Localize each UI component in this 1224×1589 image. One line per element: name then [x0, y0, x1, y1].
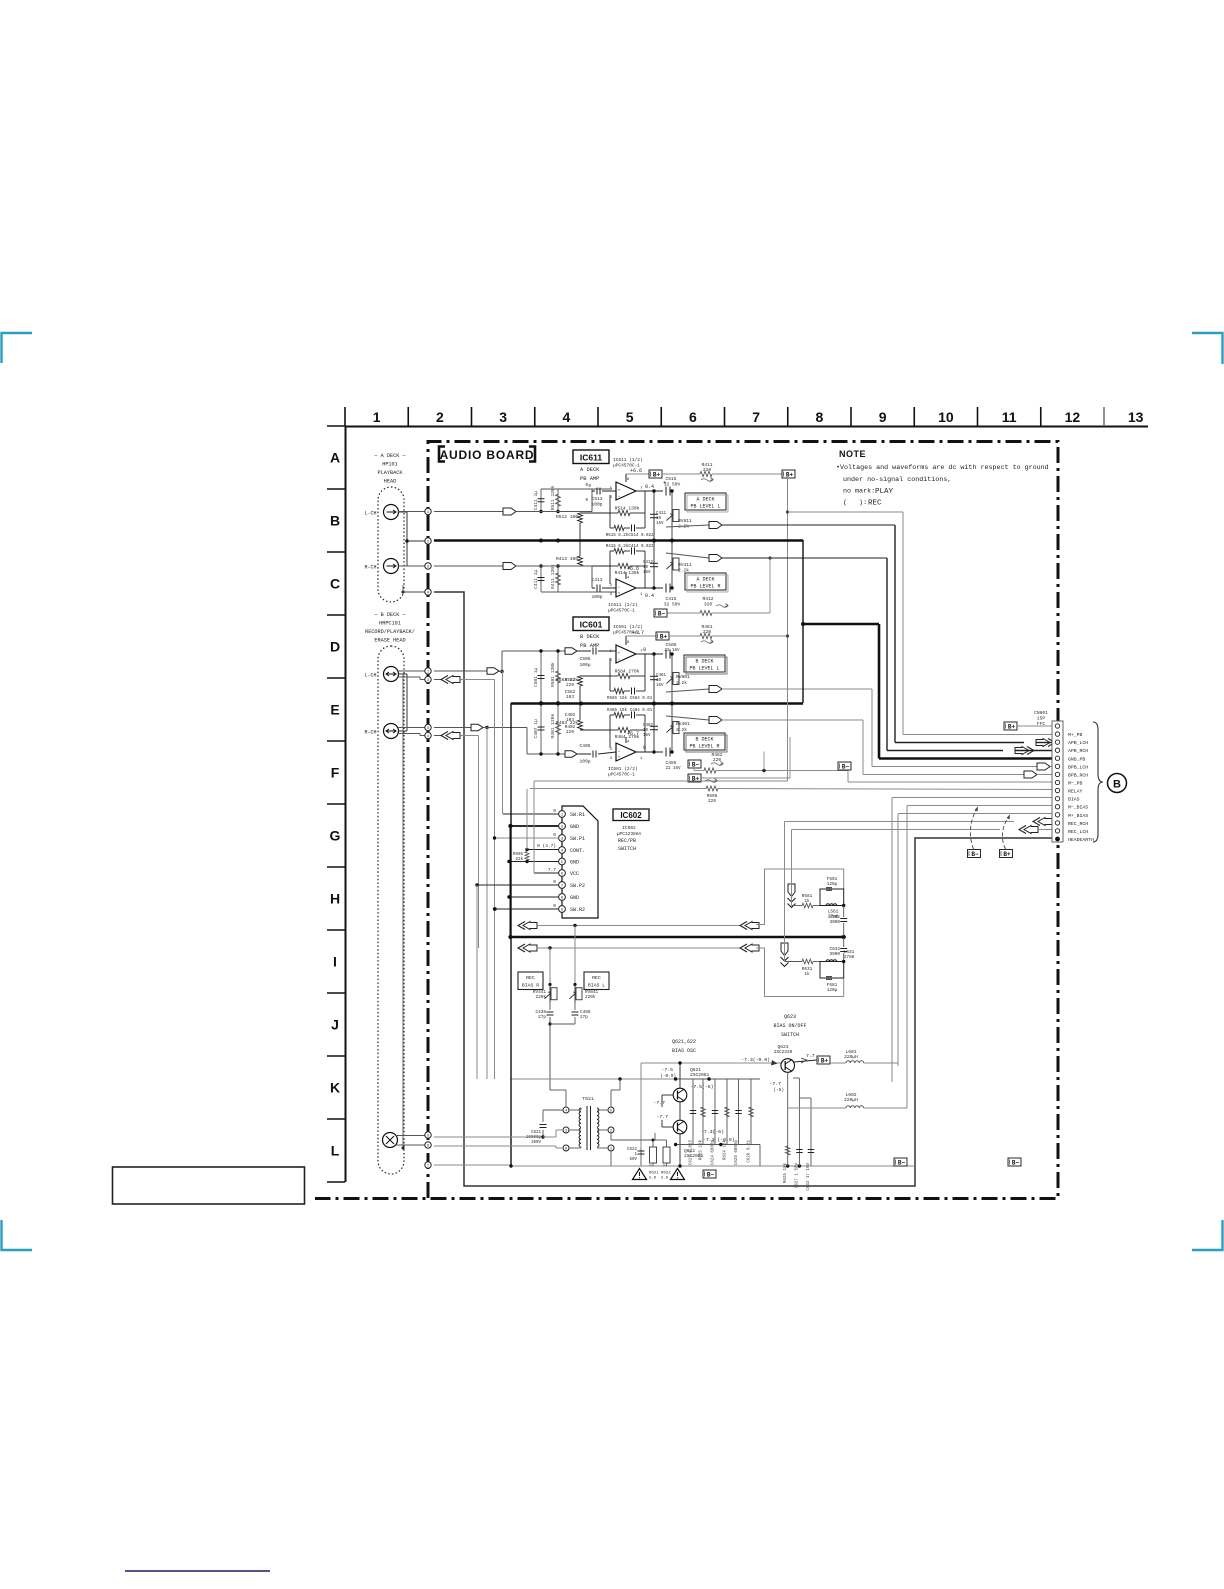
earth loop wire — [434, 592, 1052, 1186]
down pennant REC L — [788, 884, 795, 897]
wire APB_LCH — [894, 525, 896, 743]
B- flag bias arc — [968, 850, 981, 858]
pennant arrow A-L out — [709, 522, 722, 529]
IC611 label box — [573, 450, 609, 464]
footer rule — [125, 1570, 270, 1572]
svg-text:B+: B+ — [653, 471, 661, 478]
rec trap lower route — [756, 948, 844, 997]
IC602 pin6 wire — [534, 872, 559, 874]
gnd heavy link — [803, 623, 879, 626]
wire REC_RCH — [785, 821, 1015, 823]
svg-text:0: 0 — [553, 903, 556, 909]
svg-text:C481: C481 — [656, 674, 667, 678]
ferrite F681 loop — [820, 962, 844, 979]
svg-text:Q621,622: Q621,622 — [672, 1039, 696, 1045]
connector pin 2 B deck — [425, 676, 431, 682]
svg-text:R584 270k: R584 270k — [615, 669, 640, 675]
svg-text:−: − — [618, 586, 621, 591]
svg-text:B−: B− — [971, 851, 979, 858]
svg-text:10: 10 — [643, 729, 649, 733]
B+ flag connector — [1004, 722, 1017, 730]
A deck head R-CH — [384, 559, 399, 574]
C412 R411 input network A-R — [540, 566, 542, 592]
svg-text:7: 7 — [427, 1165, 429, 1169]
wire A-R out long — [722, 557, 887, 559]
pennant arrow A-L input — [503, 508, 516, 515]
svg-text:M−_PB: M−_PB — [1068, 780, 1083, 786]
svg-text:R624 18k: R624 18k — [723, 1140, 728, 1161]
cap C582 3900 — [843, 906, 845, 918]
svg-text:SW.R2: SW.R2 — [570, 907, 585, 913]
svg-text:REC_LCH: REC_LCH — [1068, 829, 1088, 835]
connector pin 4 B deck — [425, 732, 431, 738]
svg-text:G: G — [330, 828, 341, 844]
U2b power label — [625, 737, 627, 743]
wire REC_LCH — [792, 829, 1001, 831]
osc bottom rail — [511, 1165, 915, 1167]
svg-text:R621: R621 — [649, 1172, 659, 1176]
B- flag MPB — [838, 762, 851, 770]
wire B-L return cont — [460, 679, 495, 681]
cap C632 3900 — [843, 938, 845, 947]
svg-text:C411 1µ: C411 1µ — [533, 491, 539, 511]
B- flag A — [654, 609, 667, 617]
RELAY riser x527 — [526, 789, 528, 850]
svg-text:0.4: 0.4 — [645, 593, 654, 599]
svg-text:L-CH: L-CH — [364, 511, 376, 517]
svg-text:— A DECK —: — A DECK — — [373, 453, 406, 459]
T621 pin 6 — [563, 1145, 569, 1151]
IC602 pin1 wire — [503, 813, 559, 815]
svg-text:(-0.9): (-0.9) — [660, 1074, 676, 1079]
connector pin 3 A deck — [425, 563, 431, 569]
C411 R511 input network A-L — [540, 489, 542, 512]
svg-text:PLAYBACK: PLAYBACK — [378, 470, 404, 476]
svg-text:C412: C412 — [643, 561, 654, 565]
trimmer RV801 — [671, 654, 673, 703]
svg-text:27p: 27p — [538, 1015, 546, 1020]
svg-text:IC602: IC602 — [622, 825, 636, 831]
svg-text:PB LEVEL R: PB LEVEL R — [690, 584, 720, 590]
svg-text:µPC4570C-1: µPC4570C-1 — [608, 772, 635, 778]
svg-text:REC: REC — [592, 975, 601, 981]
svg-text:BIAS R: BIAS R — [522, 983, 539, 989]
svg-text:50V: 50V — [629, 1158, 637, 1162]
svg-text:C405: C405 — [579, 743, 590, 749]
svg-text:C: C — [330, 576, 340, 592]
B- flag osc right — [894, 1158, 907, 1166]
svg-text:B−: B− — [692, 761, 700, 768]
wire M+PB — [788, 511, 903, 513]
svg-text:10: 10 — [643, 566, 649, 570]
svg-text:C485: C485 — [665, 760, 676, 766]
svg-text:0: 0 — [553, 832, 556, 838]
svg-text:IC611: IC611 — [580, 453, 602, 463]
GND PB bus A — [434, 539, 803, 542]
svg-text:+6.7: +6.7 — [632, 630, 644, 636]
svg-text:(-5): (-5) — [773, 1088, 784, 1093]
transistor Q621 — [673, 1088, 687, 1102]
svg-text:C624 6800p: C624 6800p — [712, 1140, 716, 1166]
svg-text:E: E — [330, 702, 339, 718]
svg-text:R514 130k: R514 130k — [615, 506, 640, 512]
T621 pin4 riser — [565, 1090, 567, 1107]
svg-text:BIAS OSC: BIAS OSC — [672, 1048, 696, 1054]
A deck head L-CH — [384, 505, 399, 520]
svg-text:B+: B+ — [660, 633, 668, 640]
svg-text:L-CH: L-CH — [364, 673, 376, 679]
wire B-R return — [434, 735, 441, 737]
svg-text:SW.P2: SW.P2 — [570, 883, 585, 889]
svg-text:IC601: IC601 — [580, 620, 603, 630]
svg-text:1k: 1k — [804, 972, 810, 977]
svg-text:REC: REC — [868, 500, 882, 508]
rec trap upper route — [756, 869, 844, 925]
resistor R631 1k — [785, 961, 803, 963]
svg-text:R512 100: R512 100 — [556, 514, 578, 520]
svg-text:A DECK: A DECK — [696, 497, 714, 503]
svg-text:IC601 (2/2): IC601 (2/2) — [608, 766, 638, 772]
wire B-L return — [434, 679, 441, 681]
B+ flag Q623 — [817, 1056, 830, 1064]
svg-text:HRPC101: HRPC101 — [379, 621, 401, 627]
svg-text:M−_BIAS: M−_BIAS — [1068, 805, 1088, 811]
C407 R401 input network B-R — [540, 703, 542, 754]
svg-text:C482: C482 — [643, 724, 654, 728]
svg-text:I: I — [333, 954, 337, 970]
svg-text:220k: 220k — [585, 995, 596, 1000]
flag BPB_RCH — [1024, 771, 1037, 778]
svg-text:0 (4.7): 0 (4.7) — [537, 843, 556, 849]
B+ flag bias arc — [1000, 850, 1013, 858]
T621 right wires — [597, 1109, 608, 1111]
B- flag far right — [1008, 1158, 1021, 1166]
svg-text:-7.3(-0.9): -7.3(-0.9) — [741, 1057, 770, 1063]
svg-text:SW.P1: SW.P1 — [570, 836, 585, 842]
title AUDIO BOARD — [439, 447, 445, 462]
C412e electrolytic — [653, 540, 655, 588]
svg-text:BPB_RCH: BPB_RCH — [1068, 772, 1088, 778]
svg-text:BIAS ON/OFF: BIAS ON/OFF — [773, 1023, 806, 1029]
wire BIAS — [892, 797, 1052, 799]
gnd riser x803 — [802, 540, 804, 703]
svg-text:2SC2081: 2SC2081 — [690, 1072, 710, 1078]
svg-text:+6.7: +6.7 — [627, 731, 639, 737]
C585 electrolytic — [665, 650, 667, 659]
C411e electrolytic to gnd — [653, 491, 655, 540]
oscillator ladder network — [692, 1079, 694, 1145]
svg-text:GND: GND — [570, 860, 579, 866]
svg-text:5.6: 5.6 — [649, 1177, 657, 1181]
C485 electrolytic — [665, 748, 667, 757]
B+ flag U1a — [649, 470, 662, 478]
svg-text:GND_PB: GND_PB — [1068, 756, 1085, 762]
svg-text:220µH: 220µH — [844, 1054, 858, 1060]
wire B-L out long — [722, 688, 872, 690]
svg-text:16V: 16V — [643, 571, 651, 575]
resistor R581 1k — [792, 905, 803, 907]
wire R481 to rail — [712, 635, 788, 637]
svg-text:120µ: 120µ — [827, 882, 838, 887]
svg-text:REC: REC — [526, 975, 535, 981]
svg-text:+6.6: +6.6 — [627, 566, 639, 572]
svg-text:NOTE: NOTE — [839, 449, 866, 459]
IC602 pin3 wire — [495, 837, 559, 839]
A deck R-CH wire to pin — [398, 565, 425, 567]
resistor R605 22k — [525, 852, 529, 861]
svg-text:16V: 16V — [656, 522, 664, 526]
svg-text:B DECK: B DECK — [695, 737, 713, 743]
svg-text:C505: C505 — [579, 656, 590, 662]
B deck head L-CH — [384, 667, 399, 682]
svg-text:no mark:: no mark: — [843, 488, 875, 496]
SW.R1 riser x503 — [502, 672, 504, 815]
T621 pin2 wire — [610, 1133, 612, 1140]
svg-text:220: 220 — [566, 683, 574, 688]
resistor R622 boxed — [663, 1147, 670, 1163]
op-amp U2a IC601a — [616, 645, 636, 663]
svg-text:APB_LCH: APB_LCH — [1068, 740, 1088, 746]
svg-text:220: 220 — [566, 730, 574, 735]
svg-text:RV411: RV411 — [678, 562, 692, 568]
svg-text:-7.3(-6): -7.3(-6) — [701, 1129, 724, 1135]
svg-text:+6.6: +6.6 — [630, 468, 642, 474]
svg-text:-7.7: -7.7 — [653, 1100, 665, 1106]
title block box — [113, 1167, 305, 1204]
svg-text:IC611 (2/2): IC611 (2/2) — [608, 602, 638, 608]
svg-text:0: 0 — [553, 879, 556, 885]
op-amp U2b IC601b — [616, 743, 636, 761]
REC BIAS R box — [518, 972, 543, 990]
transistor Q622 — [673, 1120, 687, 1134]
C413 capacitor — [592, 587, 595, 589]
T621 pin 5 — [608, 1107, 614, 1113]
svg-text:7: 7 — [752, 409, 760, 425]
U2a output — [636, 653, 663, 655]
IC602 left bus x510.5 heavy — [510, 826, 512, 937]
svg-text:ERASE HEAD: ERASE HEAD — [374, 638, 405, 644]
svg-text:+: + — [618, 652, 621, 657]
gnd riser x511 — [510, 703, 512, 1166]
wire R411 to B+ node — [712, 473, 782, 475]
arrow APB_RCH — [1027, 747, 1034, 755]
svg-text:B+: B+ — [786, 471, 794, 478]
svg-text:A DECK: A DECK — [696, 577, 714, 583]
ferrite F501 loop — [820, 889, 844, 906]
svg-text:PB LEVEL L: PB LEVEL L — [689, 666, 719, 672]
svg-text:BPB_LCH: BPB_LCH — [1068, 764, 1088, 770]
svg-text:B−: B− — [1012, 1159, 1020, 1166]
IC602 pin2 wire — [511, 825, 559, 827]
svg-text:L: L — [331, 1143, 340, 1159]
connector pin 7 erase — [425, 1162, 431, 1168]
U2a input wire from head — [434, 670, 487, 672]
svg-text:B+: B+ — [1003, 851, 1011, 858]
svg-text:B−: B− — [898, 1159, 906, 1166]
svg-text:B DECK: B DECK — [580, 634, 600, 640]
erase wire 2 — [434, 1145, 556, 1147]
IC602 pin4 wire — [527, 849, 559, 851]
svg-text:-7.5(-6): -7.5(-6) — [690, 1084, 713, 1090]
svg-text:12: 12 — [1065, 409, 1081, 425]
svg-text:R625 10k: R625 10k — [783, 1163, 788, 1184]
svg-text:REC_RCH: REC_RCH — [1068, 821, 1088, 827]
svg-text:27p: 27p — [580, 1015, 588, 1020]
svg-text:C621: C621 — [531, 1131, 542, 1135]
svg-text:+: + — [618, 489, 621, 494]
svg-text:10: 10 — [656, 517, 662, 521]
svg-text:APB_RCH: APB_RCH — [1068, 748, 1088, 754]
pennant arrow B-R out — [709, 717, 722, 724]
svg-text:2: 2 — [436, 409, 444, 425]
svg-text:100µ: 100µ — [579, 662, 590, 668]
svg-text:C411 1µ: C411 1µ — [533, 569, 539, 589]
svg-text:1: 1 — [373, 409, 381, 425]
svg-text:M+_PB: M+_PB — [1068, 732, 1083, 738]
junction B-R input — [485, 726, 488, 729]
svg-text:— B DECK —: — B DECK — — [373, 612, 406, 618]
trimmer RV441 220k — [549, 948, 551, 985]
erase head — [383, 1133, 398, 1148]
crop mark top-left — [2, 333, 33, 363]
svg-text:C513: C513 — [591, 496, 602, 502]
U1b power label — [625, 572, 627, 579]
T621 pin 4 — [563, 1107, 569, 1113]
trimmer RV411 — [671, 540, 673, 588]
T621 pin 3 — [563, 1127, 569, 1133]
svg-text:10: 10 — [656, 679, 662, 683]
connector pin 1 A deck — [425, 508, 431, 514]
B- flag B deck — [688, 760, 701, 768]
resistor R412 320 — [667, 612, 700, 614]
U2b input wire from head — [434, 727, 471, 729]
svg-text:0: 0 — [643, 647, 646, 653]
svg-text:C623 0.015: C623 0.015 — [690, 1140, 694, 1166]
wiper wire A-L out — [666, 525, 709, 527]
C621 cap — [542, 1130, 544, 1137]
svg-text:220: 220 — [703, 629, 712, 635]
crop mark bottom-left — [2, 1220, 33, 1250]
REC BIAS L box — [584, 972, 609, 990]
wire B-R out long — [722, 719, 863, 721]
A deck ground wire to pin — [402, 591, 405, 594]
svg-text:IC602: IC602 — [620, 811, 642, 820]
svg-text:µPC1238HA: µPC1238HA — [617, 831, 642, 837]
svg-text:R411 120k: R411 120k — [550, 564, 556, 589]
svg-text:32 50V: 32 50V — [664, 482, 681, 488]
svg-text:3900: 3900 — [829, 952, 840, 957]
svg-text:B DECK: B DECK — [695, 659, 713, 665]
B+ flag U2a — [656, 632, 669, 640]
svg-text:GND: GND — [570, 895, 579, 901]
svg-text:CN601: CN601 — [1034, 710, 1048, 716]
svg-text:−: − — [618, 750, 621, 755]
IC602 pin9 wire — [495, 908, 559, 910]
C505 coupling — [577, 650, 591, 652]
svg-text:under no-signal conditions,: under no-signal conditions, — [843, 476, 951, 484]
trimmer RV401 — [671, 703, 673, 752]
wire B+ to R481 — [669, 635, 700, 637]
svg-text:C501 1µ: C501 1µ — [533, 667, 539, 687]
connector pin 4 A deck — [425, 589, 431, 595]
svg-text:-7.7: -7.7 — [769, 1081, 781, 1087]
flag BPB_LCH — [1037, 763, 1050, 770]
svg-text:C407 1µ: C407 1µ — [533, 719, 539, 739]
C481e electrolytic — [653, 654, 655, 703]
transistor Q623 — [781, 1059, 795, 1073]
B- flag bottom mid — [703, 1170, 716, 1178]
resistor R481 220 — [700, 633, 712, 638]
svg-text:R515 6.2k: R515 6.2k — [606, 533, 629, 538]
svg-text:R412: R412 — [702, 596, 713, 602]
pennant arrow B-L input — [487, 668, 499, 674]
svg-text:32 50V: 32 50V — [664, 602, 681, 608]
svg-text:HEAD: HEAD — [384, 479, 396, 485]
svg-text:6: 6 — [689, 409, 697, 425]
svg-text:2.2k: 2.2k — [676, 680, 687, 686]
erase wire 3 — [434, 1164, 511, 1166]
wire A-L out long — [722, 524, 895, 526]
svg-text:R485 15k: R485 15k — [607, 708, 628, 713]
svg-text:2SC2320: 2SC2320 — [774, 1050, 793, 1055]
B deck PB level R box — [684, 733, 725, 750]
svg-text:10: 10 — [938, 409, 954, 425]
op-amp U1a IC611a — [616, 482, 636, 500]
svg-text:RV811: RV811 — [678, 518, 692, 524]
C415 electrolytic — [665, 584, 667, 593]
svg-text:K: K — [330, 1080, 340, 1096]
U2a power wire — [625, 636, 627, 645]
arrow pair wire y948 — [518, 944, 525, 952]
svg-text:SWITCH: SWITCH — [781, 1032, 799, 1038]
T621 pin1 wire — [610, 1151, 612, 1166]
connector pin 3 B deck — [425, 724, 431, 730]
resistor R482 220 — [694, 770, 704, 772]
trimmer RV841 220k — [574, 926, 576, 985]
svg-text:( ):: ( ): — [843, 499, 867, 507]
arrow pair wire y925 — [518, 922, 525, 930]
trimmer RV811 — [671, 491, 673, 540]
svg-text:B+: B+ — [821, 1057, 829, 1064]
svg-text:D: D — [330, 639, 340, 655]
A deck PB level R box — [685, 573, 726, 590]
B deck PB level L box — [684, 655, 725, 672]
svg-text:R605: R605 — [513, 853, 524, 857]
T621 pin 2 — [608, 1127, 614, 1133]
svg-text:GND: GND — [570, 824, 579, 830]
top ruler line and ticks — [345, 407, 1148, 427]
svg-text:C484 0.01: C484 0.01 — [630, 709, 653, 713]
svg-text:IC611 (1/2): IC611 (1/2) — [613, 457, 643, 463]
warning triangle 1 — [633, 1169, 647, 1180]
svg-text:220: 220 — [713, 757, 722, 763]
svg-text:220µH: 220µH — [844, 1097, 858, 1103]
U1b output — [636, 587, 663, 589]
transformer T621 — [579, 1108, 581, 1112]
svg-text:R•: R• — [664, 1162, 668, 1166]
U1a power wire — [625, 474, 627, 482]
svg-text:+: + — [618, 592, 621, 597]
svg-text:R511 120k: R511 120k — [550, 485, 556, 510]
svg-text:C584 0.01: C584 0.01 — [630, 697, 653, 701]
GND PB bus B — [511, 702, 803, 705]
svg-text:B: B — [1113, 779, 1121, 791]
arrow REC_RCH — [1033, 818, 1040, 826]
U1a output — [636, 490, 663, 492]
pennant arrow A-R input — [503, 563, 516, 570]
T621 left wires — [569, 1109, 581, 1111]
arrow REC_LCH — [1019, 826, 1026, 834]
